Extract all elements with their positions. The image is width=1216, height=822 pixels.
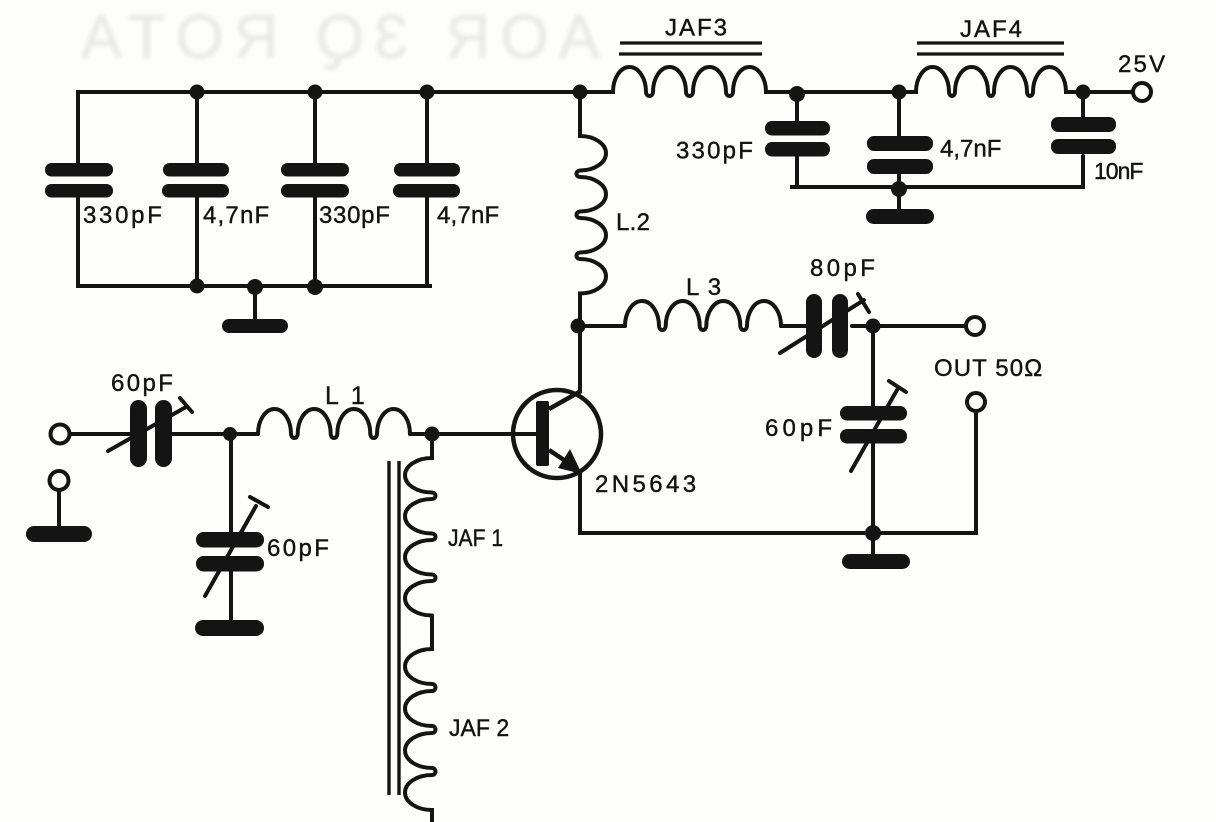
wire ground stub left block bbox=[253, 286, 257, 320]
wire L1 to base bbox=[410, 432, 536, 436]
svg-text:330pF: 330pF bbox=[83, 202, 165, 229]
svg-text:330pF: 330pF bbox=[676, 138, 755, 165]
inductor L3 bbox=[625, 301, 781, 330]
wire cap3 drop bbox=[313, 92, 317, 163]
capacitor C2 4,7nF bbox=[162, 163, 229, 198]
wire top rail right bbox=[1066, 90, 1132, 94]
inductor L2 bbox=[577, 92, 607, 326]
terminal OUT top bbox=[966, 317, 984, 335]
capacitor C1 330pF bbox=[45, 163, 113, 198]
svg-text:JAF 2: JAF 2 bbox=[449, 715, 509, 742]
terminal input gnd bbox=[50, 471, 69, 490]
node dots bbox=[190, 85, 1091, 542]
ground input bbox=[26, 526, 92, 542]
svg-text:AOR 3Q ROTA: AOR 3Q ROTA bbox=[71, 3, 600, 72]
wire ground stub right block bbox=[897, 190, 901, 209]
capacitor C11 60pF shunt variable bbox=[196, 532, 264, 572]
inductor JAF4 bbox=[916, 67, 1066, 96]
svg-text:60pF: 60pF bbox=[765, 415, 836, 442]
wire emitter down bbox=[578, 472, 582, 533]
capacitor C10 60pF series variable bbox=[130, 400, 172, 467]
wire cap2 to bottom rail bbox=[195, 197, 199, 286]
wire C7 drop bbox=[1081, 92, 1085, 117]
terminal 25V bbox=[1133, 83, 1151, 101]
ground C11 bbox=[195, 620, 264, 636]
svg-text:60pF: 60pF bbox=[267, 535, 331, 562]
wire bottom rail output bbox=[580, 531, 976, 535]
ground right block bbox=[866, 209, 934, 224]
capacitor C6 4,7nF bbox=[867, 136, 933, 174]
wire cap4 drop bbox=[425, 92, 429, 163]
svg-text:330pF: 330pF bbox=[319, 202, 391, 229]
wire right block bottom rail bbox=[792, 185, 1083, 189]
wire collector bbox=[578, 326, 582, 391]
ground left block bbox=[222, 319, 288, 333]
wire C9 drop bbox=[871, 326, 875, 407]
wire bottom rail left block bbox=[78, 284, 430, 288]
wire top rail left bbox=[78, 90, 613, 94]
svg-text:JAF4: JAF4 bbox=[960, 16, 1024, 43]
svg-text:10nF: 10nF bbox=[1094, 158, 1143, 184]
svg-text:OUT 50Ω: OUT 50Ω bbox=[934, 355, 1043, 382]
capacitor C5 330pF bbox=[765, 121, 830, 157]
wire C11 to ground bbox=[229, 572, 233, 621]
svg-text:JAF3: JAF3 bbox=[665, 15, 729, 42]
inductor JAF3 bbox=[613, 67, 766, 96]
ground output bbox=[842, 554, 910, 569]
svg-text:80pF: 80pF bbox=[810, 255, 878, 282]
inductor JAF2 bbox=[405, 616, 436, 822]
wire C7 to rail bbox=[1081, 156, 1085, 187]
svg-text:L.2: L.2 bbox=[616, 209, 650, 236]
inductor L1 bbox=[258, 409, 410, 438]
terminal input bbox=[51, 425, 70, 444]
capacitor C8 80pF variable bbox=[806, 294, 848, 358]
capacitor C3 330pF bbox=[281, 163, 349, 198]
wire top rail mid bbox=[766, 90, 916, 94]
wire C6 drop bbox=[897, 92, 901, 136]
wire input terminal to C10 bbox=[69, 432, 130, 436]
core lines JAF1/JAF2 bbox=[389, 461, 399, 795]
wire cap2 drop bbox=[195, 92, 199, 163]
inductor JAF1 bbox=[405, 434, 436, 616]
capacitor C7 10nF bbox=[1051, 117, 1116, 154]
terminal OUT bottom bbox=[967, 393, 985, 411]
wire C5 drop bbox=[795, 94, 799, 121]
svg-text:L 3: L 3 bbox=[686, 274, 722, 301]
svg-text:60pF: 60pF bbox=[111, 370, 175, 397]
wire C6 to rail bbox=[897, 175, 901, 190]
wire C5 to rail bbox=[795, 157, 799, 187]
wire C8 to out terminal bbox=[852, 324, 966, 328]
wire cap1 to bottom rail bbox=[76, 197, 80, 286]
svg-text:JAF 1: JAF 1 bbox=[448, 525, 503, 552]
wire L3 lead left bbox=[580, 324, 625, 328]
capacitor C9 60pF variable bbox=[840, 406, 907, 444]
svg-text:4,7nF: 4,7nF bbox=[437, 202, 499, 229]
transistor Q1 2N5643 bbox=[513, 390, 601, 478]
wire input gnd terminal drop bbox=[57, 490, 61, 527]
svg-text:4,7nF: 4,7nF bbox=[203, 202, 270, 229]
svg-text:2N5643: 2N5643 bbox=[595, 471, 699, 498]
svg-text:L 1: L 1 bbox=[325, 382, 368, 410]
wire cap1 drop bbox=[76, 92, 80, 163]
wire cap4 to bottom rail bbox=[425, 197, 429, 286]
wire cap3 to bottom rail bbox=[313, 197, 317, 286]
wire L3 to C8 bbox=[781, 324, 806, 328]
wire C9 to bottom rail bbox=[871, 444, 875, 533]
wire out terminal 2 drop bbox=[974, 411, 978, 533]
wire C10 to node bbox=[172, 432, 258, 436]
wire C11 drop bbox=[229, 434, 233, 533]
svg-text:4,7nF: 4,7nF bbox=[940, 136, 1001, 163]
svg-text:25V: 25V bbox=[1118, 51, 1167, 78]
wire ground stub output bbox=[871, 533, 875, 555]
capacitor C4 4,7nF bbox=[393, 163, 460, 198]
